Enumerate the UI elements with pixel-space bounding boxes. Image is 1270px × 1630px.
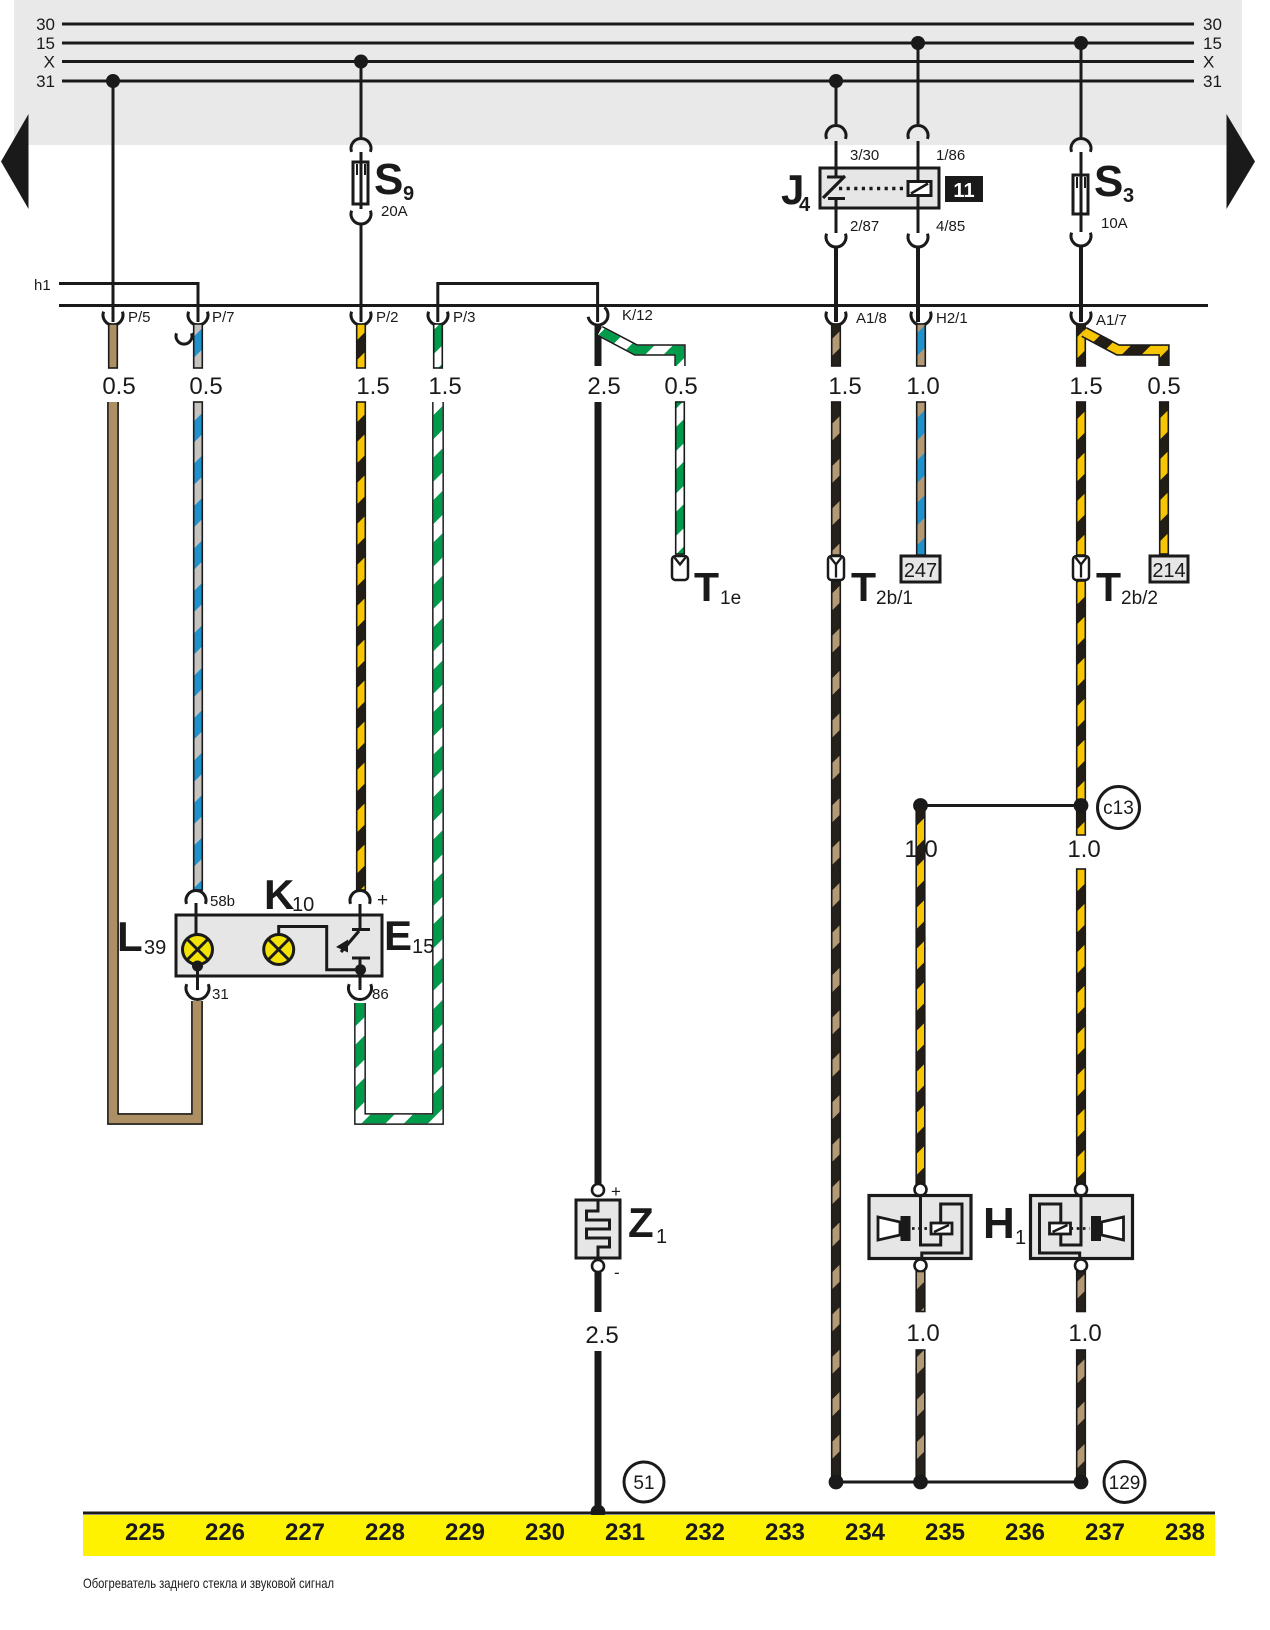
svg-text:227: 227: [285, 1519, 325, 1546]
relay J4: [781, 166, 939, 216]
wire K/12 green-white branch to T1e: [600, 331, 684, 554]
ground label 129: [1104, 1462, 1145, 1503]
wire H2/1 blue-brown upper segment: [917, 324, 926, 366]
svg-text:1.5: 1.5: [356, 373, 389, 400]
J4 switch contact: [823, 168, 845, 208]
wire left horn to ground brown-black: [906, 1272, 939, 1482]
svg-text:0.5: 0.5: [102, 373, 135, 400]
connector H2/1: [911, 310, 968, 327]
ground junction line 129: [829, 1475, 1089, 1490]
svg-text:T: T: [851, 564, 876, 610]
svg-text:237: 237: [1085, 1519, 1125, 1546]
h1 main line: [59, 304, 1208, 307]
wire S9 to h1 line: [360, 225, 363, 322]
node on bus 15 for J4 coil: [911, 36, 925, 50]
svg-text:229: 229: [445, 1519, 485, 1546]
svg-text:Обогреватель заднего стекла и: Обогреватель заднего стекла и звуковой с…: [83, 1575, 334, 1591]
horn H1 right: [1031, 1184, 1133, 1272]
svg-text:10A: 10A: [1101, 215, 1128, 232]
caption: [83, 1575, 334, 1591]
right continuation arrow: [1227, 114, 1256, 209]
svg-text:X: X: [44, 53, 55, 72]
lamp L39: [117, 913, 213, 965]
svg-text:233: 233: [765, 1519, 805, 1546]
h1 bracket over P/3 and K/12: [438, 284, 598, 323]
svg-text:31: 31: [212, 986, 229, 1003]
node on bus 15 for S3: [1074, 36, 1088, 50]
svg-text:K/12: K/12: [622, 307, 653, 324]
svg-text:P/7: P/7: [212, 309, 235, 326]
connector P/3: [428, 309, 476, 326]
wire A1/8 brown-black run to T2b/1: [832, 402, 841, 555]
ground label 51: [624, 1462, 664, 1502]
node on bus X for S9: [354, 55, 368, 69]
svg-text:E: E: [384, 912, 412, 959]
connector T2b/1: [828, 556, 913, 610]
svg-text:228: 228: [365, 1519, 405, 1546]
svg-text:39: 39: [144, 937, 166, 959]
bus line X: [44, 53, 1215, 72]
wire P/7 blue-grey run to 58b: [194, 402, 203, 890]
svg-text:30: 30: [1203, 15, 1222, 34]
horn H1 label: [983, 1199, 1026, 1249]
connector A1/7: [1071, 312, 1127, 329]
wire P/3 green-white run to E15 pin 86: [360, 402, 438, 1119]
svg-text:226: 226: [205, 1519, 245, 1546]
svg-text:0.5: 0.5: [189, 373, 222, 400]
left continuation arrow: [1, 114, 29, 209]
gauge labels row 1: [102, 373, 1180, 400]
wire A1/7 black-yellow run T2b/2 to c13 and horn: [1077, 581, 1086, 1186]
svg-text:0.5: 0.5: [664, 373, 697, 400]
wire P/5 feeder from bus 31: [112, 81, 115, 322]
wire K/12 black run to Z1: [595, 402, 602, 1184]
wire A1/7 black-yellow run to T2b/2: [1077, 402, 1086, 555]
wire H2/1 blue-brown run to socket 247: [917, 402, 926, 555]
connector A1/8: [826, 310, 887, 327]
svg-text:+: +: [377, 890, 388, 911]
K10 internal wire lamp to switch: [279, 927, 360, 970]
horn H1 left: [869, 1184, 971, 1272]
wire P/7 blue-grey upper segment: [194, 324, 203, 368]
svg-text:214: 214: [1152, 560, 1185, 582]
h1 upper stub line: [59, 284, 198, 323]
svg-text:2b/1: 2b/1: [876, 588, 913, 609]
bus line 31: [36, 72, 1222, 91]
svg-text:Z: Z: [628, 1199, 654, 1246]
wire P/3 green-white upper segment: [434, 324, 443, 368]
svg-text:2/87: 2/87: [850, 218, 879, 235]
J4 pin 3/30 wire: [826, 81, 879, 168]
svg-text:S: S: [374, 155, 403, 204]
wire S9 feeder from bus X: [360, 62, 363, 163]
svg-text:225: 225: [125, 1519, 165, 1546]
svg-text:2.5: 2.5: [585, 1322, 618, 1349]
connector P/7: [176, 309, 235, 344]
svg-text:1e: 1e: [720, 588, 741, 609]
wire Z1 to ground 51: [585, 1272, 618, 1519]
connector P/2: [351, 309, 399, 326]
svg-text:3/30: 3/30: [850, 147, 879, 164]
connector K/12: [588, 307, 653, 329]
node on bus 31 for J4: [829, 74, 843, 88]
svg-text:231: 231: [605, 1519, 645, 1546]
svg-text:1.0: 1.0: [1067, 836, 1100, 863]
connector plus at E15: [350, 890, 388, 911]
svg-text:3: 3: [1123, 185, 1134, 207]
J4 pin 1/86 wire: [908, 43, 965, 168]
bus line 30: [36, 15, 1222, 34]
svg-text:9: 9: [403, 183, 414, 205]
svg-text:S: S: [1094, 157, 1123, 206]
wire P/5 brown upper segment: [109, 324, 118, 368]
svg-text:30: 30: [36, 15, 55, 34]
svg-text:L: L: [117, 913, 143, 960]
svg-text:K: K: [264, 871, 294, 918]
svg-text:4: 4: [799, 194, 811, 216]
svg-text:31: 31: [36, 72, 55, 91]
svg-text:A1/8: A1/8: [856, 310, 887, 327]
track numbers: [125, 1519, 1205, 1546]
svg-text:236: 236: [1005, 1519, 1045, 1546]
svg-text:234: 234: [845, 1519, 886, 1546]
fuse S9: [353, 155, 414, 220]
connector arc S9 top: [351, 138, 371, 151]
wire A1/7 black-yellow upper segment: [1077, 324, 1086, 366]
E15 label: [384, 912, 434, 959]
svg-text:86: 86: [372, 986, 389, 1003]
svg-text:-: -: [614, 1263, 620, 1282]
svg-text:1.0: 1.0: [904, 836, 937, 863]
J4 current track tag 11: [945, 176, 983, 202]
connector 86 below E15: [349, 984, 389, 1003]
current track bar: [83, 1513, 1215, 1556]
wire right horn to ground brown-black: [1068, 1272, 1101, 1482]
svg-text:232: 232: [685, 1519, 725, 1546]
svg-text:15: 15: [412, 936, 434, 958]
svg-text:h1: h1: [34, 277, 51, 294]
node on bus 31 for P/5: [106, 74, 120, 88]
wire c13 to left horn black-yellow: [916, 808, 925, 1186]
svg-text:1.5: 1.5: [428, 373, 461, 400]
svg-text:1.5: 1.5: [1069, 373, 1102, 400]
svg-text:H: H: [983, 1199, 1015, 1248]
connector label c13: [1098, 787, 1140, 829]
svg-text:T: T: [1096, 564, 1121, 610]
wire A1/8 brown-black upper segment: [832, 324, 841, 366]
svg-text:31: 31: [1203, 72, 1222, 91]
svg-text:P/5: P/5: [128, 309, 151, 326]
svg-text:1/86: 1/86: [936, 147, 965, 164]
J4 pin 2/87 wire to h1: [826, 208, 879, 322]
svg-text:20A: 20A: [381, 203, 408, 220]
node L39 bottom: [192, 961, 203, 991]
svg-text:1: 1: [656, 1226, 667, 1248]
svg-text:247: 247: [904, 560, 937, 582]
svg-text:1.0: 1.0: [906, 1320, 939, 1347]
svg-text:15: 15: [1203, 34, 1222, 53]
wire P/2 yellow-black upper segment: [357, 324, 366, 368]
connector T1e: [672, 556, 741, 610]
switch E15 contacts: [336, 904, 370, 990]
svg-text:235: 235: [925, 1519, 965, 1546]
svg-text:P/2: P/2: [376, 309, 399, 326]
wire P/2 yellow-black run to E15 plus: [357, 402, 366, 890]
node c13 junction: [913, 798, 1088, 813]
svg-text:129: 129: [1109, 1473, 1141, 1494]
power rail band: [14, 0, 1242, 145]
svg-text:A1/7: A1/7: [1096, 312, 1127, 329]
svg-text:+: +: [611, 1182, 621, 1201]
bus line 15: [36, 34, 1222, 53]
svg-text:2.5: 2.5: [587, 373, 620, 400]
wire A1/8 brown-black run T2b/1 to ground point: [832, 581, 841, 1481]
svg-text:238: 238: [1165, 1519, 1205, 1546]
svg-text:15: 15: [36, 34, 55, 53]
wire K/12 black upper segment: [595, 326, 602, 366]
socket 247: [901, 556, 940, 582]
switch unit K10 box: [176, 915, 382, 976]
connector 58b: [186, 890, 235, 934]
svg-text:51: 51: [633, 1473, 654, 1494]
h1 label: [34, 277, 51, 294]
svg-text:1: 1: [1015, 1227, 1026, 1249]
socket 214: [1150, 556, 1188, 582]
J4 pin 4/85 wire to h1: [908, 208, 965, 322]
svg-text:P/3: P/3: [453, 309, 476, 326]
svg-text:0.5: 0.5: [1147, 373, 1180, 400]
svg-text:T: T: [694, 564, 719, 610]
svg-text:1.0: 1.0: [1068, 1320, 1101, 1347]
J4 actuating dotted line: [839, 187, 906, 190]
svg-text:c13: c13: [1103, 798, 1134, 819]
gauge labels at c13: [904, 836, 1100, 863]
connector T2b/2: [1073, 556, 1158, 610]
lamp K10 indicator: [264, 935, 294, 965]
svg-text:58b: 58b: [210, 893, 235, 910]
svg-text:2b/2: 2b/2: [1121, 588, 1158, 609]
svg-text:230: 230: [525, 1519, 565, 1546]
connector 31 below K10: [186, 984, 229, 1003]
J4 coil: [908, 168, 931, 208]
wire P/5 brown long run to K10 pin 31: [113, 402, 197, 1119]
connector P/5: [103, 309, 151, 326]
connector arc S9 bottom: [351, 204, 371, 224]
fuse S3: [1071, 43, 1134, 322]
svg-text:1.5: 1.5: [828, 373, 861, 400]
heated rear window Z1: [576, 1182, 667, 1282]
svg-text:1.0: 1.0: [906, 373, 939, 400]
wire A1/7 black-yellow branch to socket 214: [1084, 332, 1168, 554]
svg-text:X: X: [1203, 53, 1214, 72]
svg-text:11: 11: [953, 180, 974, 202]
svg-text:10: 10: [292, 894, 314, 916]
svg-text:H2/1: H2/1: [936, 310, 968, 327]
K10 label: [264, 871, 314, 918]
svg-text:4/85: 4/85: [936, 218, 965, 235]
